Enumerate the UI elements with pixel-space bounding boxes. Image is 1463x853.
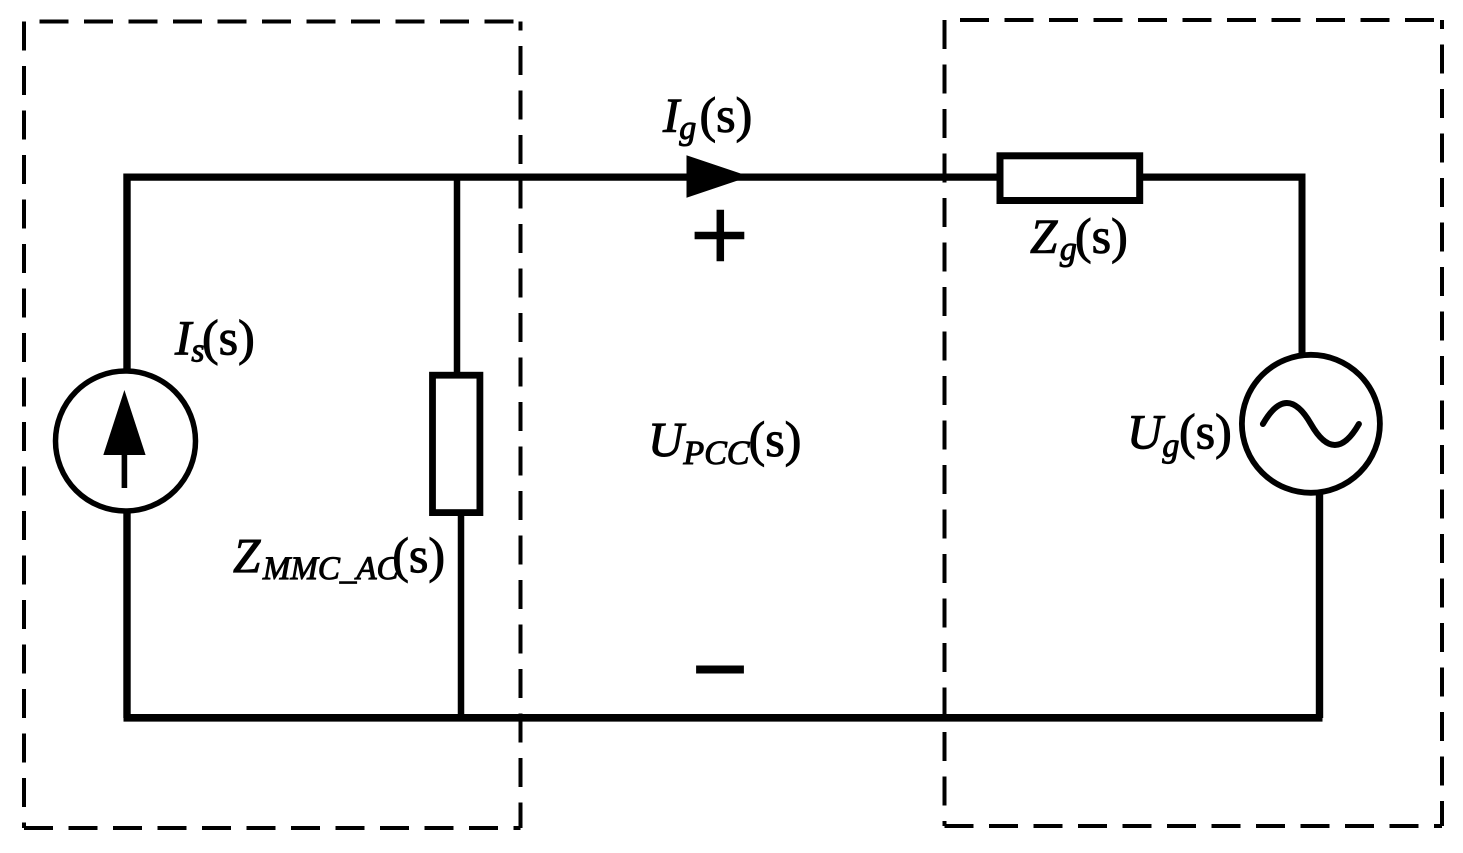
label Ig(s): [663, 97, 750, 146]
MMC subsystem dashed box: [24, 22, 521, 829]
plus sign (U_PCC polarity): [695, 210, 745, 262]
label U_PCC(s): [653, 421, 800, 466]
wire vertical to Z_MMC_AC top: [454, 177, 461, 375]
label Is(s): [175, 320, 253, 365]
wire bottom horizontal (return bus): [124, 714, 1323, 722]
impedance Z_MMC_AC (rectangle): [433, 375, 480, 512]
wire right vertical (top of voltage source): [1299, 174, 1306, 358]
label Z_MMC_AC(s): [234, 537, 443, 583]
wire left vertical (bottom of current source): [123, 510, 130, 718]
current source Is (circle with up arrow): [56, 371, 196, 511]
wire vertical from Z_MMC_AC bottom: [458, 512, 465, 718]
minus sign (U_PCC polarity): [696, 666, 744, 674]
label Zg(s): [1031, 218, 1126, 267]
voltage source Ug (circle with sine): [1242, 355, 1380, 493]
resistor Zg (rectangle): [1000, 156, 1140, 201]
wire left vertical (top of current source): [123, 174, 130, 374]
wire right vertical (bottom of voltage source): [1316, 491, 1323, 718]
wire top horizontal (PCC bus): [124, 173, 1306, 180]
current direction arrow Ig: [687, 156, 748, 197]
grid subsystem dashed box: [945, 20, 1443, 826]
label Ug(s): [1132, 414, 1230, 464]
